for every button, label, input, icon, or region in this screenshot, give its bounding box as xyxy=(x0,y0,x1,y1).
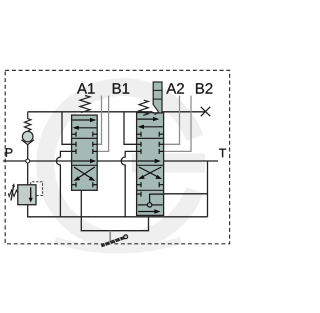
valve V2: crossed arrows xyxy=(138,167,162,179)
relief valve RV1: pilot dashed line xyxy=(31,182,43,196)
relief valve RV1: body xyxy=(18,185,36,205)
wire: node to relief valve xyxy=(27,163,29,185)
label B2 xyxy=(196,83,212,93)
wire: supply header line xyxy=(28,111,206,113)
valve V1: body xyxy=(72,115,98,190)
valve V2: port stubs xyxy=(137,132,164,188)
relief valve RV1: adjustable spring xyxy=(8,183,17,200)
valve V2: pos1 arrow right xyxy=(137,117,159,121)
check valve CV1: seat xyxy=(21,140,34,145)
valve V2: float position detail xyxy=(137,192,164,214)
wire: work port A1 xyxy=(97,96,101,145)
valve V1: return spring xyxy=(80,96,90,113)
wire: relief valve to rail xyxy=(27,205,29,217)
node: P junction xyxy=(26,159,30,163)
wire: valve1 bottom port / linkage left xyxy=(80,190,82,230)
dashed border frame xyxy=(5,70,229,243)
watermark G logo xyxy=(45,87,205,250)
valve V1: crossed arrows xyxy=(74,167,96,181)
wire: valve2 supply drop xyxy=(124,112,137,145)
valve V1: pos1 arrow left xyxy=(73,126,97,130)
wire: T line xyxy=(164,160,218,162)
valve V2: bypass arrow xyxy=(137,159,161,163)
valve V1: pos1 arrow right xyxy=(72,118,96,122)
wire: valve2 tank drop with hop xyxy=(121,151,136,216)
relief valve RV1: internal arrow xyxy=(29,187,33,202)
plug X on header end xyxy=(201,107,210,116)
valve V1: dividers xyxy=(72,138,98,165)
wire: valve1 tank drop with hop xyxy=(56,151,71,217)
valve V1: port stubs xyxy=(72,132,98,188)
valve V2: body xyxy=(137,113,164,216)
wire: work port A2 xyxy=(164,96,180,145)
wire: T drop right xyxy=(207,161,209,217)
label A1 xyxy=(77,83,95,93)
wire: bypass valve1 to valve2 xyxy=(97,160,136,162)
valve V1: bypass arrow xyxy=(72,159,96,163)
wire: valve2 float port to T drop xyxy=(164,193,208,195)
valve V2: dividers xyxy=(137,138,164,190)
check valve CV1: spring xyxy=(25,112,31,131)
wire: work port B1 xyxy=(97,96,108,152)
label P xyxy=(6,148,13,157)
valve V2: detent stack xyxy=(153,82,163,115)
wire: tank rail xyxy=(27,216,207,218)
wire: P line xyxy=(3,160,72,162)
wire: check valve vertical xyxy=(27,145,29,159)
label B1 xyxy=(113,83,129,93)
check valve CV1: ball xyxy=(22,131,33,142)
valve V2: return spring xyxy=(139,100,148,115)
wire: lever linkage bottom and right xyxy=(81,217,149,231)
wire: work port B2 xyxy=(164,96,191,152)
wire: valve1 supply drop xyxy=(62,112,72,145)
valve V2: pos1 arrow left xyxy=(138,125,163,129)
lever actuator xyxy=(101,231,127,247)
label T xyxy=(219,149,226,158)
label A2 xyxy=(166,83,184,93)
